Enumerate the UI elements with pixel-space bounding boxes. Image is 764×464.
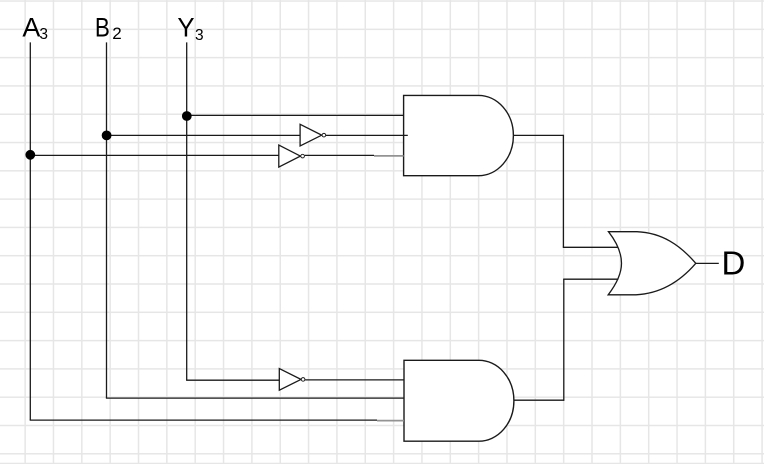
svg-text:3: 3: [195, 27, 204, 44]
wire U1 output: [513, 134, 563, 136]
wire inverter N3 output to U2 input1: [305, 379, 404, 381]
wire Y vertical: [186, 42, 188, 380]
wire U1 output vertical down: [562, 135, 564, 248]
junction dot on A wire: [25, 150, 35, 160]
wire A middle horizontal to inverter: [30, 154, 279, 156]
wire B middle horizontal to inverter: [106, 134, 300, 136]
wire Y bottom horizontal to inverter: [186, 379, 279, 381]
or-gate U3: [608, 232, 696, 295]
junction dot on B wire: [102, 131, 112, 141]
svg-text:B: B: [95, 13, 110, 43]
svg-text:2: 2: [112, 24, 121, 43]
wire U2 output vertical up: [563, 279, 565, 401]
wire B vertical: [106, 42, 108, 398]
inverter N3 bubble: [301, 378, 305, 382]
grid bottom edge line: [0, 462, 764, 464]
and-gate U1 (top): [404, 95, 514, 175]
wire A vertical: [29, 42, 31, 420]
wire B bottom horizontal: [106, 397, 404, 399]
svg-text:A: A: [22, 13, 40, 43]
wire A bottom gray stub: [377, 420, 404, 422]
inverter N2 bubble: [301, 154, 305, 158]
wire into OR top input: [563, 246, 618, 248]
wire gray stub into U1 input3: [374, 155, 404, 157]
and-gate U2 (bottom): [404, 360, 514, 441]
wire OR output to D: [696, 262, 719, 264]
junction dot on Y wire: [182, 111, 192, 121]
wire inverter N1 output into U1 input2: [326, 134, 408, 136]
inverter N2 (on A middle wire): [279, 145, 301, 167]
wire into OR bottom input: [563, 278, 618, 280]
inverter N1 bubble: [322, 133, 326, 137]
svg-text:D: D: [722, 245, 746, 282]
wire A bottom horizontal: [30, 419, 377, 421]
inverter N3 (on Y bottom wire): [279, 369, 301, 391]
wire Y top horizontal to U1 input1: [186, 114, 403, 116]
svg-text:3: 3: [39, 26, 48, 43]
wire U2 output: [514, 399, 564, 401]
inverter N1 (on B middle wire): [300, 124, 322, 146]
svg-text:Y: Y: [177, 13, 194, 43]
wire inverter N2 output: [305, 154, 374, 156]
